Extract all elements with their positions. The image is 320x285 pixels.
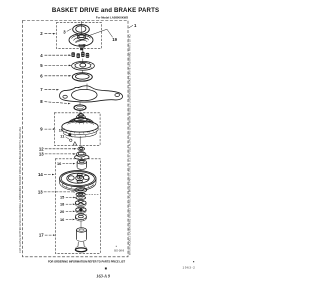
callout 14 [38, 172, 55, 177]
callout 13 [39, 151, 76, 156]
svg-text:20: 20 [60, 210, 64, 214]
part 4 drive block clips (four small pieces) [71, 52, 89, 58]
washer C [76, 196, 86, 199]
hatch marks on disc [63, 129, 96, 134]
svg-text:7: 7 [40, 87, 43, 92]
svg-text:11: 11 [60, 135, 64, 139]
label 3 [63, 29, 71, 35]
part 17 shaft lower [75, 242, 87, 252]
washer above bushing [75, 155, 89, 160]
callout 4 [40, 53, 71, 58]
callout 8 [40, 99, 70, 104]
label 16 (upper) [57, 162, 75, 166]
triangle mark [73, 142, 77, 145]
svg-text:6: 6 [40, 73, 43, 78]
shaft clip below pulley (dark) [75, 38, 87, 42]
part 18 clutch nut [75, 200, 86, 206]
svg-text:163-A 9: 163-A 9 [96, 274, 111, 279]
callout 17 [39, 233, 56, 238]
part 12 thrust washer [78, 145, 85, 150]
svg-text:19: 19 [112, 37, 117, 42]
part 17 agitator shaft upper [77, 221, 87, 242]
callout 9 [40, 127, 55, 132]
part 16 spacer bushing [77, 160, 86, 169]
svg-text:1: 1 [134, 23, 137, 28]
callout 12 [39, 146, 77, 151]
part 7 mounting stem plate [60, 84, 123, 102]
svg-text:1963-2: 1963-2 [183, 266, 196, 270]
part 8 O-ring [74, 102, 86, 113]
callout 1 [129, 23, 137, 28]
svg-text:15: 15 [60, 196, 64, 200]
svg-text:WASH MODELS LA5800XKW2 BASKET: WASH MODELS LA5800XKW2 BASKET DRIVE AND … [128, 34, 132, 255]
part 6 bearing washer [72, 70, 92, 81]
part 16b bearing [75, 213, 86, 221]
callout 13b [38, 190, 75, 195]
svg-text:13: 13 [39, 151, 44, 156]
inner box 1 (spin tube and pulley kit) [56, 23, 101, 49]
part 13a spacer washer [76, 152, 86, 159]
svg-text:3: 3 [63, 29, 66, 34]
svg-text:13: 13 [38, 190, 43, 195]
label 20 [60, 210, 75, 214]
part 13b washer below pulley [75, 188, 87, 193]
svg-text:BO-08-8: BO-08-8 [114, 248, 124, 252]
callout 7 [40, 87, 59, 92]
svg-text:9: 9 [40, 127, 43, 132]
label 16b [60, 218, 75, 222]
part 5 slinger [72, 59, 95, 71]
svg-text:CUT ALONG DOTTED LINE FOLD MOD: CUT ALONG DOTTED LINE FOLD MODEL LA5800X… [18, 127, 22, 253]
part 14 spin pulley [60, 170, 96, 191]
part 9 brake assembly [62, 114, 98, 145]
svg-text:4: 4 [40, 53, 43, 58]
outer dashed border [23, 21, 129, 257]
part 3 seal ring [73, 25, 90, 34]
washer B with dashes right [76, 193, 99, 196]
svg-text:2: 2 [40, 31, 43, 36]
svg-text:16: 16 [60, 218, 64, 222]
centerline top [80, 21, 82, 27]
callout 2 [40, 31, 55, 36]
svg-text:8: 8 [40, 99, 43, 104]
label 18 [60, 203, 75, 207]
label 15 [60, 196, 76, 200]
callout 6 [40, 73, 71, 78]
footer dot [105, 268, 107, 270]
inner box 3 (spin pulley kit) [55, 159, 100, 254]
svg-text:BASKET DRIVE and BRAKE PARTS: BASKET DRIVE and BRAKE PARTS [52, 7, 159, 14]
svg-text:18: 18 [60, 203, 64, 207]
inner box 2 (brake and drive tube assembly) [54, 113, 100, 146]
svg-text:For Model LA5800XKW2: For Model LA5800XKW2 [96, 16, 129, 20]
svg-text:FOR ORDERING INFORMATION REFER: FOR ORDERING INFORMATION REFER TO PARTS … [48, 259, 126, 263]
svg-text:16: 16 [57, 162, 61, 166]
svg-text:5: 5 [40, 63, 43, 68]
svg-text:14: 14 [38, 172, 43, 177]
svg-text:17: 17 [39, 233, 44, 238]
callout 5 [40, 63, 71, 68]
label 11 and washer [60, 135, 72, 142]
leader 19 [87, 29, 118, 42]
part 20 spacer [76, 207, 86, 213]
label 10 and screw [59, 129, 72, 138]
pulley assembly in box 1 [69, 34, 93, 50]
svg-text:10: 10 [59, 129, 63, 133]
